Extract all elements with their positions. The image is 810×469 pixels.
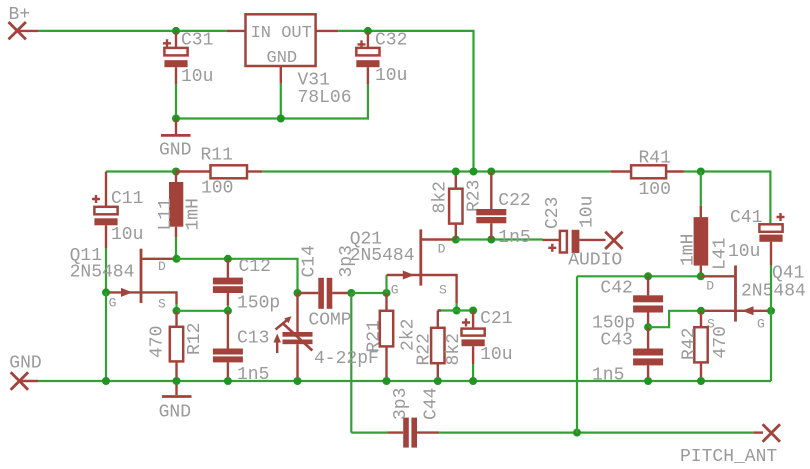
node junction C21 top (469, 307, 477, 315)
svg-text:C13: C13 (237, 329, 269, 349)
svg-text:1mH: 1mH (679, 234, 699, 266)
svg-text:470: 470 (711, 326, 731, 358)
node junction rail C21 (469, 377, 477, 385)
wire L11 to drain node (175, 237, 177, 259)
svg-text:R11: R11 (201, 146, 233, 166)
wire C44 riser (350, 293, 352, 433)
svg-text:AUDIO: AUDIO (568, 251, 622, 271)
svg-text:10u: 10u (111, 225, 143, 245)
svg-text:S: S (439, 282, 447, 297)
svg-text:1n5: 1n5 (498, 228, 530, 248)
node junction Q11 drain (173, 255, 181, 263)
svg-text:B+: B+ (9, 5, 31, 25)
svg-text:100: 100 (201, 179, 233, 199)
wire Q11 source down (175, 304, 177, 311)
resistor R41 (611, 149, 684, 201)
node junction ground row regulator (277, 115, 285, 123)
resistor R11 (176, 146, 262, 199)
svg-text:C41: C41 (730, 208, 762, 228)
wire drain node row (177, 259, 298, 293)
node junction rail L11 (172, 168, 180, 176)
capacitor C44 (351, 388, 441, 448)
node junction Q41 source (697, 307, 705, 315)
svg-text:R41: R41 (639, 149, 671, 169)
svg-text:R23: R23 (465, 180, 485, 212)
node junction Q21 source (453, 307, 461, 315)
svg-text:G: G (109, 296, 117, 311)
inductor L41 (679, 206, 731, 276)
capacitor C43 (592, 327, 663, 385)
node junction rail R22 (434, 377, 442, 385)
node junction L41 bottom (697, 272, 705, 280)
svg-text:GND: GND (267, 49, 298, 68)
svg-text:GND: GND (159, 141, 191, 161)
svg-text:150p: 150p (237, 294, 280, 314)
wire source row Q21 (438, 309, 473, 311)
wire ground rail main (38, 380, 771, 382)
resistor R12 (148, 311, 206, 377)
svg-text:C23: C23 (543, 197, 563, 229)
capacitor C11 (92, 172, 143, 249)
svg-text:OUT: OUT (281, 24, 312, 43)
node junction C42 C43 (644, 323, 652, 331)
svg-text:GND: GND (159, 403, 191, 423)
svg-text:D: D (438, 241, 446, 256)
node junction rail gate left (102, 377, 110, 385)
node junction rail R21 (383, 377, 391, 385)
node junction C31 top (172, 27, 180, 35)
svg-text:1n5: 1n5 (592, 366, 624, 386)
svg-text:C14: C14 (300, 245, 320, 277)
svg-text:10u: 10u (728, 242, 760, 262)
node junction C12 top (224, 255, 232, 263)
transistor Q21 2N5484 (350, 229, 457, 303)
resistor R23 (431, 172, 485, 240)
wire C31 to ground row (175, 84, 177, 119)
svg-text:10u: 10u (578, 196, 598, 228)
svg-text:8k2: 8k2 (431, 181, 451, 213)
node junction Q11 gate (102, 288, 110, 296)
svg-text:R21: R21 (365, 320, 385, 352)
resistor R42 (680, 311, 732, 381)
wire supply rail middle (262, 170, 611, 172)
wire C41 to gate (770, 265, 772, 311)
svg-text:C12: C12 (239, 257, 271, 277)
ground GND symbol bottom (159, 381, 192, 423)
node junction rail R12 (173, 377, 181, 385)
wire ground row top section (176, 84, 368, 119)
node junction rail R23 (452, 168, 460, 176)
svg-text:C43: C43 (600, 331, 632, 351)
wire source row (177, 310, 228, 312)
svg-text:R12: R12 (185, 323, 205, 355)
wire dogleg C42-C43 to source (648, 311, 701, 327)
svg-text:C44: C44 (422, 388, 442, 420)
node junction rail C22 (487, 168, 495, 176)
inductor L11 (156, 172, 204, 238)
wire C14 to gate riser (351, 292, 386, 294)
capacitor C22 (476, 172, 530, 248)
node junction rail R41 right (697, 168, 705, 176)
wire supply rail left (106, 170, 176, 172)
svg-text:Q41: Q41 (772, 264, 804, 284)
node junction Q21 drain (452, 236, 460, 244)
node junction rail R42 (697, 377, 705, 385)
node junction C12 bottom (224, 307, 232, 315)
svg-text:3p3: 3p3 (391, 388, 411, 420)
svg-text:100: 100 (639, 180, 671, 200)
wire drain row Q21 (456, 238, 543, 240)
svg-text:D: D (158, 259, 166, 274)
svg-text:8k2: 8k2 (444, 333, 464, 365)
svg-text:2N5484: 2N5484 (350, 246, 415, 266)
wire Q21 source riser (456, 303, 458, 311)
svg-text:C22: C22 (498, 191, 530, 211)
svg-text:G: G (757, 316, 765, 331)
capacitor C42 (592, 276, 663, 333)
svg-text:IN: IN (251, 24, 271, 43)
svg-text:78L06: 78L06 (298, 88, 352, 108)
svg-text:C21: C21 (480, 309, 512, 329)
capacitor C23 (543, 196, 606, 253)
wire gate to ground rail right (770, 311, 772, 381)
transistor Q41 2N5484 (701, 264, 806, 332)
svg-text:G: G (391, 282, 399, 297)
svg-text:COMP: COMP (308, 311, 351, 331)
capacitor C21 (462, 309, 513, 365)
node junction C32 top (364, 27, 372, 35)
node junction rail OUT riser (470, 168, 478, 176)
node junction rail C13 (224, 377, 232, 385)
node junction Q41 gate (767, 307, 775, 315)
svg-text:S: S (158, 297, 166, 312)
wire supply rail right (684, 172, 771, 225)
node junction ground row left (172, 115, 180, 123)
resistor R22 (415, 311, 465, 378)
svg-text:10u: 10u (375, 66, 407, 86)
flag PITCH_ANT (680, 424, 780, 467)
svg-text:PITCH_ANT: PITCH_ANT (680, 447, 777, 464)
capacitor C13 (213, 311, 270, 385)
wire L41 riser (700, 172, 702, 206)
wire B+ to regulator IN (38, 30, 227, 32)
capacitor C14 (300, 245, 358, 309)
node junction R21 top (383, 289, 391, 297)
svg-text:C11: C11 (111, 189, 143, 209)
wire regulator OUT to supply rail (338, 31, 473, 172)
wire pitch riser (576, 276, 578, 432)
wire pitch row (439, 432, 753, 434)
wire gate to ground rail (105, 292, 107, 381)
svg-text:C32: C32 (375, 31, 407, 51)
wire right tank row (577, 275, 701, 277)
node junction trimmer top (294, 289, 302, 297)
capacitor C31 (163, 31, 213, 88)
wire Q21 gate riser (385, 275, 387, 293)
transistor Q11 2N5484 (70, 246, 177, 312)
svg-text:1mH: 1mH (184, 198, 204, 230)
svg-text:2N5484: 2N5484 (70, 263, 135, 283)
ground GND symbol top (159, 119, 191, 161)
node junction rail trimmer (294, 377, 302, 385)
node junction pitch riser (573, 429, 581, 437)
node junction rail C43 (644, 377, 652, 385)
svg-text:C42: C42 (600, 279, 632, 299)
capacitor C12 (213, 257, 280, 314)
svg-text:470: 470 (148, 326, 168, 358)
flag B+ (9, 5, 39, 39)
svg-text:R42: R42 (680, 328, 700, 360)
svg-text:C31: C31 (181, 31, 213, 51)
flag AUDIO (568, 232, 622, 271)
node junction Q11 source (173, 307, 181, 315)
wire C14 row (298, 292, 303, 294)
svg-text:10u: 10u (480, 345, 512, 365)
trimmer capacitor C13 4-22pF (273, 293, 378, 381)
node junction C22 bottom (487, 236, 495, 244)
svg-text:10u: 10u (181, 67, 213, 87)
resistor R21 (365, 293, 419, 381)
capacitor C41 (728, 208, 785, 265)
svg-text:GND: GND (9, 354, 41, 374)
voltage regulator V31 78L06 (227, 14, 352, 108)
flag GND left (9, 354, 41, 390)
wire C11 to gate node (105, 248, 107, 292)
node junction C42 top (644, 272, 652, 280)
node junction C14 right (347, 289, 355, 297)
svg-text:D: D (706, 279, 714, 294)
svg-text:L11: L11 (156, 198, 176, 230)
svg-text:R22: R22 (415, 333, 435, 365)
capacitor C32 (356, 31, 407, 87)
svg-text:2N5484: 2N5484 (741, 282, 806, 302)
